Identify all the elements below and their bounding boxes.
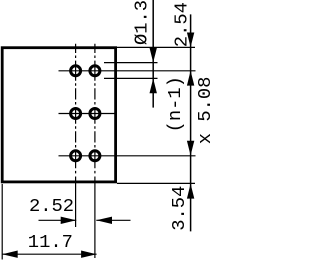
2.52 dim line right tail	[96, 219, 130, 221]
bottom edge extension line	[117, 182, 195, 184]
arrow up to bottom edge	[187, 184, 194, 199]
2.52 dim line left tail	[39, 219, 77, 221]
svg-text:(n-1): (n-1)	[164, 76, 186, 132]
arrow up to row1	[187, 71, 194, 86]
top edge extension line	[117, 46, 195, 48]
hole A1	[71, 66, 81, 76]
hole B2	[90, 109, 100, 119]
hole row 3 center line	[59, 155, 196, 157]
svg-text:2.54: 2.54	[171, 2, 193, 47]
dia dimension line	[152, 0, 154, 108]
arrow down to top edge	[187, 33, 194, 48]
column 2 center line (dash-dot)	[94, 44, 96, 258]
2.52 arrow left	[96, 217, 112, 224]
hole A3	[71, 151, 81, 161]
11.7 arrow left	[2, 251, 18, 258]
svg-text:Ø1.3: Ø1.3	[131, 0, 153, 45]
2.52 arrow right	[61, 217, 76, 224]
column 1 center line (dash-dot)	[75, 44, 77, 227]
svg-text:x 5.08: x 5.08	[194, 77, 214, 145]
hole A2	[71, 109, 81, 119]
hole row 2 center line	[59, 113, 115, 115]
hole diameter leader top	[104, 62, 158, 64]
11.7 arrow right	[81, 251, 97, 258]
11.7 dim line	[2, 253, 96, 255]
left edge extension line	[1, 184, 3, 260]
arrow down to row3	[187, 141, 194, 156]
hole diameter leader bottom	[104, 77, 158, 79]
part body outline	[2, 48, 115, 182]
right dimension line	[190, 14, 192, 231]
hole B1	[90, 66, 100, 76]
svg-text:3.54: 3.54	[168, 186, 190, 231]
dia arrow up	[150, 78, 157, 93]
svg-text:11.7: 11.7	[28, 231, 73, 253]
hole B3	[90, 151, 100, 161]
svg-text:2.52: 2.52	[29, 195, 74, 217]
hole row 1 center line	[59, 70, 196, 72]
dia arrow down	[150, 48, 157, 63]
